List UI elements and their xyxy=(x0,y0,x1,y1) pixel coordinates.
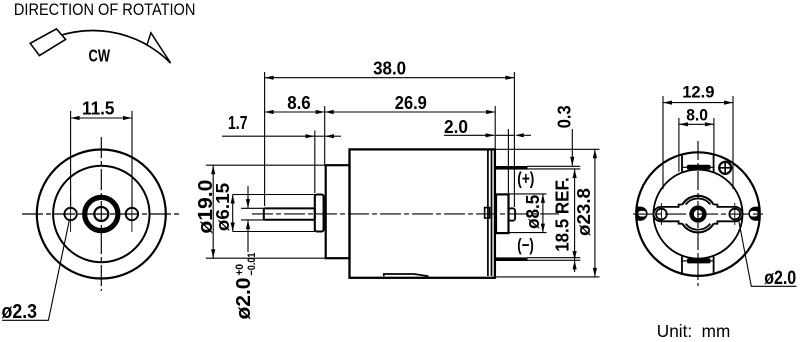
svg-text:−0.01: −0.01 xyxy=(246,252,258,275)
left view hole left xyxy=(64,208,76,220)
boss inner arc top xyxy=(686,198,711,204)
dim 8.0 line xyxy=(679,123,714,125)
dim d23.8 extension bottom xyxy=(496,276,600,278)
svg-text:CW: CW xyxy=(89,46,111,66)
svg-text:ø2.0: ø2.0 xyxy=(764,268,796,289)
boss thick hole ring xyxy=(692,208,705,221)
boss white core xyxy=(680,196,716,232)
dim 8.6 line xyxy=(265,111,325,113)
dim d19.0 extension top xyxy=(206,164,325,166)
right view horizontal centerline xyxy=(633,213,763,215)
svg-text:2.0: 2.0 xyxy=(444,116,468,137)
dim d6.15 extension top xyxy=(233,194,315,196)
right ear boss xyxy=(748,207,759,221)
dim 38.0 line xyxy=(265,77,515,79)
svg-text:ø2.0: ø2.0 xyxy=(233,278,255,320)
terminal tab minus xyxy=(495,257,528,261)
right view outer circle xyxy=(636,152,760,276)
svg-text:38.0: 38.0 xyxy=(373,58,406,79)
shaft end bump xyxy=(509,208,516,220)
left view shaft circle xyxy=(94,207,108,221)
boss outer arc bottom xyxy=(682,224,713,233)
left view vertical centerline xyxy=(100,137,102,291)
ext line x=324.7 xyxy=(324,106,326,164)
dim 12.9 line xyxy=(663,102,733,104)
top slot xyxy=(687,165,711,170)
side hole right xyxy=(729,209,740,220)
dim 1.7 extension xyxy=(314,131,316,194)
svg-text:8.6: 8.6 xyxy=(287,92,311,113)
right view inner circle xyxy=(654,170,743,259)
rotation arc xyxy=(42,30,171,63)
left ear boss xyxy=(637,207,648,221)
dim 1.7 line and arrows xyxy=(222,135,315,137)
right hole vertical tick xyxy=(131,196,133,232)
dim 2.0 line and arrows xyxy=(444,134,494,136)
end bell xyxy=(326,165,350,258)
collar xyxy=(315,195,324,232)
svg-text:Unit: mm: Unit: mm xyxy=(657,321,731,341)
dim 11.5 extension lines xyxy=(70,111,72,207)
motor can xyxy=(350,149,495,277)
dim 26.9 extension right xyxy=(494,106,496,149)
hole ticks xyxy=(660,203,662,225)
middle axis centerline xyxy=(252,213,559,215)
dim d23.8 extension top xyxy=(496,148,600,150)
left view outer circle xyxy=(37,150,166,279)
dim 2.0 extensions xyxy=(507,129,509,194)
left view hole right xyxy=(126,208,138,220)
cap inner line 1 xyxy=(487,151,489,277)
svg-text:ø8.5: ø8.5 xyxy=(522,195,543,229)
boss outer arc top xyxy=(682,196,713,205)
dim d2.0 tol extensions xyxy=(241,207,264,209)
svg-text:12.9: 12.9 xyxy=(682,82,714,101)
boss inner arc bottom xyxy=(686,224,711,230)
dim 38.0 extension right xyxy=(513,72,515,207)
right wing xyxy=(713,205,742,224)
left hole vertical tick xyxy=(70,196,72,232)
left view inner circle d19 xyxy=(53,166,149,262)
svg-text:0.3: 0.3 xyxy=(553,105,574,128)
svg-text:+0: +0 xyxy=(234,264,246,276)
dim d23.8 line xyxy=(594,149,596,277)
svg-text:1.7: 1.7 xyxy=(228,112,248,133)
side hole left xyxy=(656,209,667,220)
svg-text:DIRECTION OF ROTATION: DIRECTION OF ROTATION xyxy=(14,0,196,19)
svg-text:ø6.15: ø6.15 xyxy=(213,183,233,231)
dim d6.15 extension bottom xyxy=(233,231,315,233)
leader d2.0 xyxy=(738,218,796,286)
svg-text:26.9: 26.9 xyxy=(395,92,427,113)
dim d8.5 extension bottom xyxy=(510,232,547,234)
dim 12.9 extensions xyxy=(662,96,664,189)
dim d2.0 tol line and arrows xyxy=(247,186,249,208)
dim 18.5 REF line xyxy=(574,169,576,260)
shaft xyxy=(264,208,315,219)
dim d8.5 extension top xyxy=(510,193,547,195)
svg-text:18.5 REF.: 18.5 REF. xyxy=(552,177,573,252)
svg-text:(−): (−) xyxy=(517,235,534,255)
vent slot bottom xyxy=(384,274,429,276)
cap inner line 2 xyxy=(491,151,493,277)
cap small tab xyxy=(485,208,490,218)
right view vertical centerline xyxy=(697,141,699,286)
dim 0.3 line upper xyxy=(571,129,573,166)
left view horizontal centerline xyxy=(22,213,181,215)
dim d19.0 line xyxy=(212,165,214,258)
top notch edges xyxy=(681,154,683,172)
screw symbol circle-cross xyxy=(719,162,731,174)
bottom slot xyxy=(687,258,711,263)
dim 8.0 extensions xyxy=(678,118,680,172)
svg-text:ø23.8: ø23.8 xyxy=(573,188,594,236)
svg-text:11.5: 11.5 xyxy=(82,98,115,119)
bottom notch edges xyxy=(681,256,683,274)
left wing xyxy=(654,205,683,224)
leader d2.3 xyxy=(2,220,69,320)
rotation arrowhead xyxy=(147,33,171,63)
dim 38.0 extension left xyxy=(264,72,266,206)
dim 11.5 line xyxy=(71,117,132,119)
svg-text:ø2.3: ø2.3 xyxy=(2,301,38,323)
svg-text:(+): (+) xyxy=(517,169,534,189)
terminal tab plus xyxy=(495,166,528,170)
bearing housing xyxy=(496,194,509,233)
dim d8.5 line xyxy=(542,194,544,233)
dim 26.9 line xyxy=(325,111,496,113)
svg-text:8.0: 8.0 xyxy=(686,105,708,124)
dim d6.15 line and arrows xyxy=(232,195,234,232)
dim d19.0 extension bottom xyxy=(206,257,325,259)
rotation flag xyxy=(30,29,65,56)
left view boss thick ring xyxy=(85,197,118,230)
dim d2.0 tol text xyxy=(233,252,258,319)
